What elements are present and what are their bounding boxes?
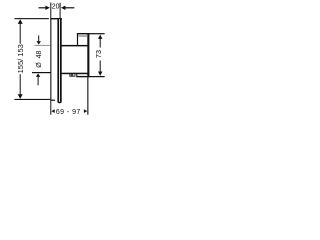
dim 73: lower line segment [100, 61, 101, 73]
dim 155/153: bottom extension line [14, 99, 50, 100]
dim d48: top leader line gray [34, 45, 50, 46]
grip ring bottom edge [76, 76, 89, 77]
escutcheon plate top edge [50, 18, 62, 19]
grip ring top box left edge [77, 33, 78, 45]
dim 20: left tail [39, 7, 46, 8]
knob body bottom edge [61, 73, 89, 75]
dim 20: left arrowhead [45, 6, 50, 10]
svg-text:155/ 153: 155/ 153 [16, 44, 25, 73]
svg-text:20: 20 [52, 4, 60, 11]
grip ring top edge [77, 33, 90, 34]
dim 69-97: right arrowhead [84, 109, 87, 113]
grip ring top gray band [78, 35, 87, 37]
plate front double line with rounded bottom [57, 19, 61, 103]
dim 20: left extension line [50, 3, 51, 19]
dim d48: bottom leader line [32, 72, 51, 73]
dim 69-97: left extension line [50, 101, 51, 115]
dim 73: top extension line [89, 33, 104, 34]
dim d48: bottom arrowhead [36, 73, 40, 77]
dim 155/153: top extension line [14, 18, 49, 19]
dim d48: top arrow tail [38, 35, 39, 41]
dim 73: bottom arrowhead [98, 72, 102, 76]
dim 155/153: top arrowhead [18, 19, 23, 24]
dim 155/153: bottom arrowhead [18, 94, 23, 99]
grip ring bottom box left edge [76, 74, 77, 77]
knob body top edge [61, 45, 89, 47]
escutcheon plate back edge [50, 18, 51, 100]
dim 73: top arrowhead [98, 35, 102, 39]
dim 20: right arrowhead [61, 6, 66, 10]
dim d48: top arrowhead [37, 41, 41, 44]
svg-text:Ø 48: Ø 48 [36, 51, 43, 68]
svg-text:73: 73 [94, 50, 103, 58]
dim 73: bottom extension line [89, 76, 104, 77]
dim 73: upper line segment [100, 39, 101, 48]
dim 20: right tail [65, 7, 74, 8]
dim 155/153: lower line segment [20, 74, 21, 96]
knob front face [87, 33, 89, 77]
svg-text:69 - 97: 69 - 97 [56, 109, 81, 116]
dim d48: bottom arrow tail [38, 77, 39, 86]
plate back-box bottom edge [50, 100, 55, 101]
dim 155/153: upper line segment [20, 24, 21, 44]
dim 20: right extension line [60, 3, 61, 19]
dim 69-97: left arrowhead [51, 109, 54, 113]
dim 69-97: right extension line [87, 77, 88, 115]
hanging stop button below knob [69, 74, 75, 77]
